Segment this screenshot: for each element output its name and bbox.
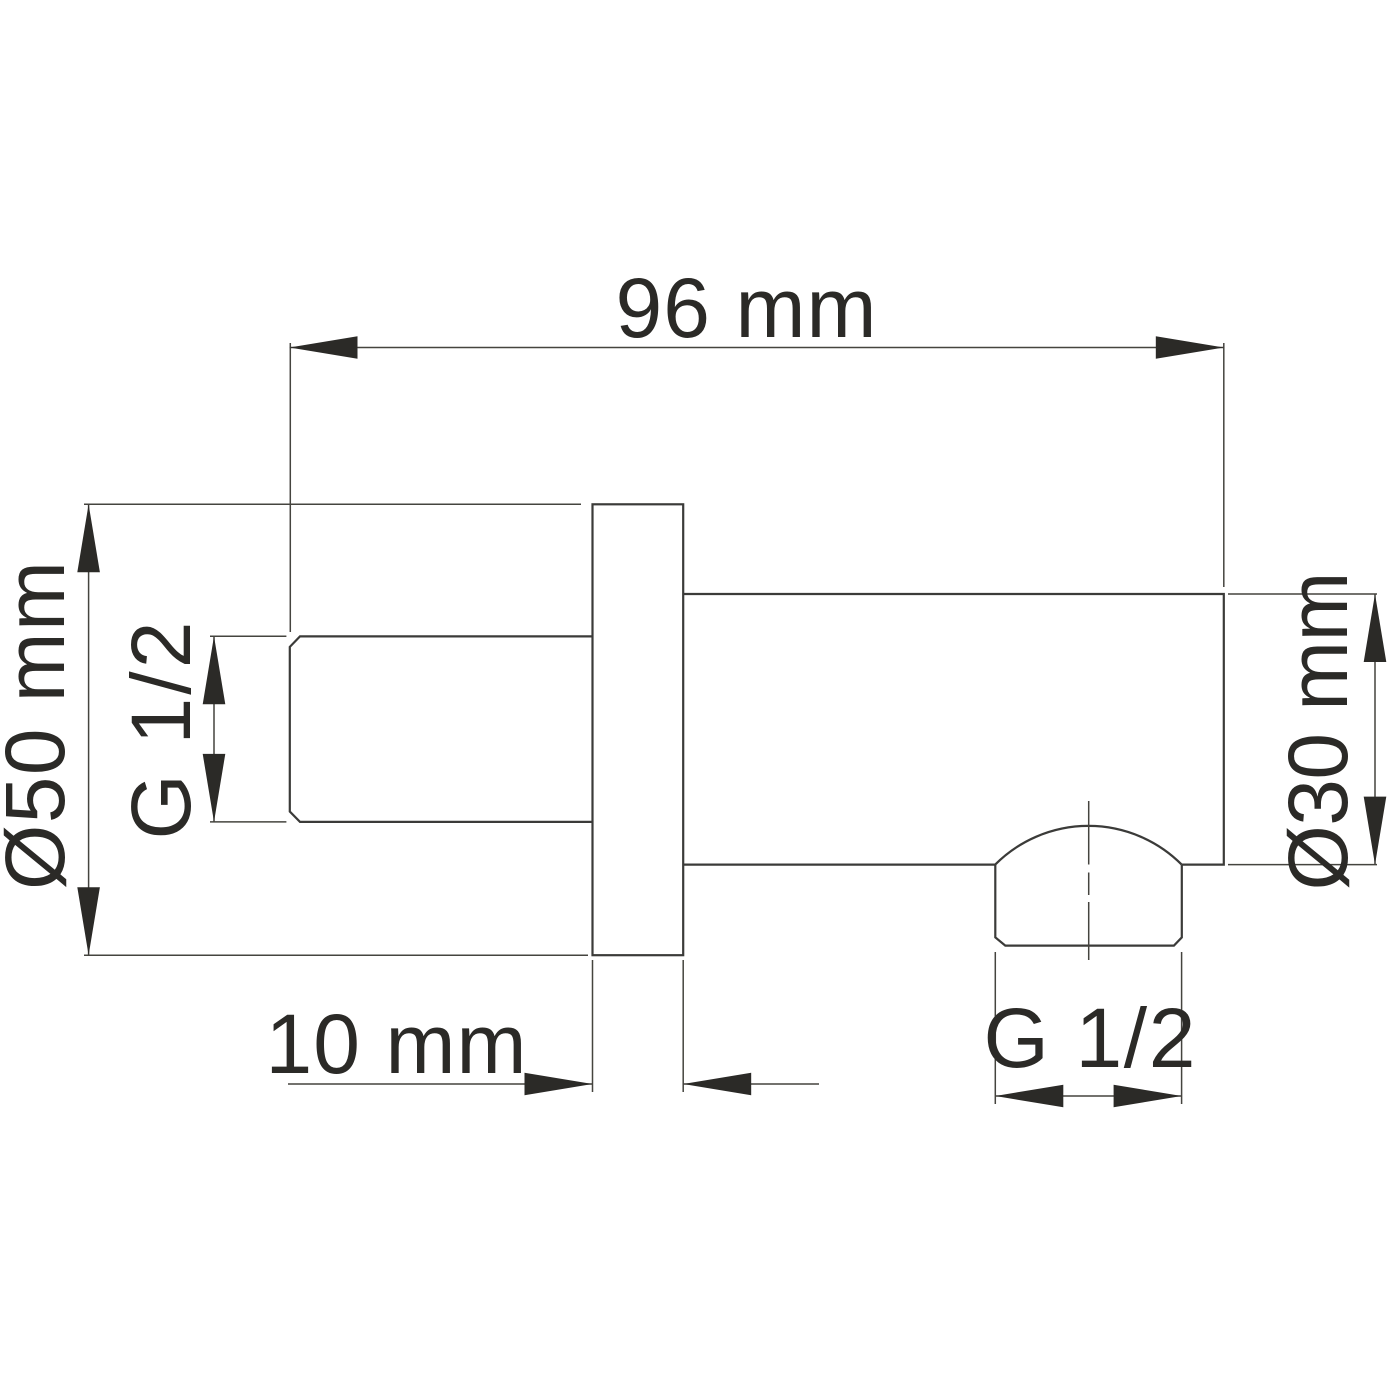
dimension line D30	[1374, 594, 1376, 865]
arrowhead G12 bottom left-pointing	[995, 1085, 1063, 1108]
arrowhead 96mm left	[290, 336, 358, 359]
arrowhead 10mm right-pointing	[525, 1073, 593, 1096]
svg-text:Ø30 mm: Ø30 mm	[1271, 572, 1365, 891]
arrowhead D50 down	[77, 887, 100, 955]
wall-side G 1/2 connector stub with chamfered corners	[290, 636, 593, 822]
arrowhead D30 down	[1364, 797, 1387, 865]
body cylinder (horizontal tube)	[683, 594, 1224, 865]
dimension line G12 bottom	[995, 1095, 1181, 1097]
extension line D30 bottom	[1228, 864, 1377, 866]
extension line 10mm right	[682, 960, 684, 1092]
extension line G12 bottom right	[1181, 952, 1183, 1104]
extension line G12 left top	[210, 635, 286, 637]
arrowhead G12 left up	[203, 636, 226, 704]
svg-text:G 1/2: G 1/2	[114, 622, 208, 840]
extension line D30 top	[1228, 593, 1377, 595]
svg-text:10 mm: 10 mm	[266, 997, 527, 1091]
centerline of outlet (dash-dot)	[1088, 801, 1090, 961]
dimension line 96 mm	[290, 347, 1224, 349]
svg-text:96 mm: 96 mm	[616, 261, 877, 355]
arrowhead 10mm left-pointing	[683, 1073, 751, 1096]
extension line G12 bottom left	[994, 952, 996, 1104]
dimension line 10mm left segment	[288, 1083, 593, 1085]
outlet nut top arc	[995, 826, 1182, 865]
extension line G12 left bottom	[210, 821, 286, 823]
arrowhead G12 bottom right-pointing	[1114, 1085, 1182, 1108]
arrowhead D50 up	[77, 504, 100, 572]
svg-text:Ø50 mm: Ø50 mm	[0, 561, 82, 890]
dimension line G12 left	[213, 636, 215, 822]
extension line D50 bottom	[84, 954, 588, 956]
extension line D50 top	[84, 503, 581, 505]
extension line 10mm left	[592, 960, 594, 1092]
wall flange plate (side view rectangle)	[593, 504, 684, 955]
dimension line D50	[88, 504, 90, 955]
bottom outlet nut body	[995, 865, 1182, 946]
dimension line 10mm right segment	[683, 1083, 819, 1085]
extension line 96mm right	[1223, 343, 1225, 587]
arrowhead D30 up	[1364, 594, 1387, 662]
extension line 96mm left	[289, 343, 291, 632]
arrowhead G12 left down	[203, 754, 226, 822]
svg-text:G 1/2: G 1/2	[984, 991, 1196, 1085]
arrowhead 96mm right	[1156, 336, 1224, 359]
